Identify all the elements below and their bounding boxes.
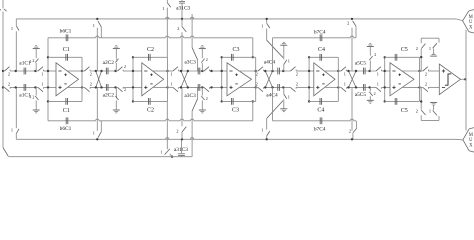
node summing2 x C-wire top <box>132 56 134 58</box>
wire hop b6 top over V97 <box>96 36 99 38</box>
svg-text:1: 1 <box>261 128 263 133</box>
node op-amp4 out top <box>337 70 339 72</box>
svg-text:2: 2 <box>32 58 34 63</box>
ground G5 bottom <box>369 87 371 91</box>
wire rail-to-stage2 vertical top <box>96 28 98 71</box>
svg-text:C4: C4 <box>318 47 325 53</box>
svg-text:U: U <box>469 20 473 25</box>
ground G1 bottom <box>35 87 37 95</box>
ground G3 bottom <box>201 87 203 95</box>
node rail dot 267 top <box>266 18 268 20</box>
svg-text:2: 2 <box>256 82 258 87</box>
node summing3 row bottom <box>221 86 223 88</box>
ground G4 top <box>283 65 285 72</box>
wire V167 top stub <box>166 0 168 3</box>
node rail dot 182 top <box>181 18 183 20</box>
capacitor C5 top <box>385 56 420 58</box>
svg-text:1: 1 <box>93 131 95 136</box>
op-amp U2 <box>142 63 164 96</box>
svg-text:b6C1: b6C1 <box>60 126 72 132</box>
capacitor a1C1 bottom <box>23 84 25 91</box>
svg-text:1: 1 <box>377 71 379 76</box>
node bottom bus at V167 <box>171 156 173 158</box>
op-amp U4 <box>314 63 335 96</box>
wire op-amp2 input stubs <box>133 70 142 72</box>
wire bottom reference rail <box>16 138 456 140</box>
svg-text:1: 1 <box>162 6 164 11</box>
wire a31C3 top vertical <box>181 3 183 19</box>
node op-amp3 out bottom <box>255 86 257 88</box>
switch S-V167 bottom phase1 <box>165 149 170 155</box>
node summing5 x C-wire top <box>384 56 386 58</box>
node A1 top <box>15 70 17 72</box>
switch S1a phase2 top <box>5 67 10 71</box>
wire hop b6 bottom over V97 <box>96 119 99 121</box>
capacitor C4 top <box>309 56 338 58</box>
wire op-amp3 output line <box>255 57 257 101</box>
capacitor C5 bottom <box>385 100 420 102</box>
node summing1 x C-wire top <box>47 56 49 58</box>
wire row stage2 bottom <box>82 86 85 88</box>
wire hop b6 bottom over V182 <box>180 119 183 121</box>
wire b6 bottom right corner <box>252 101 254 120</box>
node op-amp2 out top <box>166 70 168 72</box>
node op-amp5 out top <box>418 70 420 72</box>
svg-text:1: 1 <box>344 82 346 87</box>
wire b7 bottom <box>273 120 351 122</box>
wire comp row bottom <box>420 86 423 88</box>
switch S5a phase1 bottom <box>341 87 346 91</box>
wire comp gnd branch top <box>438 38 440 42</box>
node comp branch bottom at C5 <box>420 100 422 102</box>
capacitor a2C2 bottom <box>105 84 107 91</box>
wire hop b6 top over V192 <box>190 36 193 38</box>
svg-text:2: 2 <box>206 96 208 101</box>
node summing2 row top <box>132 70 134 72</box>
capacitor a5C5 bottom <box>363 84 365 91</box>
svg-text:1: 1 <box>171 71 173 76</box>
mux M2 (bottom, cut at border) <box>463 129 469 140</box>
wire op-amp2 output stubs <box>153 70 167 72</box>
svg-text:C1: C1 <box>63 47 70 53</box>
node rail dot 352 bottom <box>351 138 353 140</box>
mux M1 (top, cut at border) <box>463 11 469 21</box>
ground G3 top <box>201 63 203 71</box>
ground G4 bottom <box>283 87 285 94</box>
node summing1 row top <box>47 70 49 72</box>
wire op-amp4 output stubs <box>325 70 338 72</box>
node summing4 x C-wire bottom <box>308 100 310 102</box>
node summing3 row top <box>221 70 223 72</box>
wire comparator sample bus top <box>421 37 439 39</box>
ground G5 top <box>369 61 371 72</box>
svg-text:1: 1 <box>171 82 173 87</box>
svg-text:C3: C3 <box>232 108 239 114</box>
capacitor b6C1 bottom <box>65 117 67 124</box>
node A1 bottom <box>15 86 17 88</box>
node summing2 x C-wire bottom <box>132 100 134 102</box>
node B2 top <box>114 70 116 72</box>
switch S-rail-1 bottom (phase 1) <box>16 129 19 134</box>
wire op-amp2 output line <box>167 57 169 101</box>
node rail dot 97 top <box>96 18 98 20</box>
wire row stage3 top <box>168 70 174 72</box>
wire hop b6 top over V182 <box>180 36 183 38</box>
wire V167 top run <box>166 8 168 58</box>
node B3 bottom <box>201 86 203 88</box>
wire row stage4 top <box>256 70 258 72</box>
svg-text:a5C5: a5C5 <box>355 92 367 98</box>
capacitor a3C3 bottom <box>197 84 199 91</box>
node summing5 x C-wire bottom <box>384 100 386 102</box>
svg-text:2: 2 <box>176 128 178 133</box>
capacitor a4C4 top <box>277 68 279 75</box>
wire op-amp5 input stubs <box>385 70 390 72</box>
switch S1a phase2 bottom <box>5 87 10 91</box>
svg-text:a31C3: a31C3 <box>176 5 190 11</box>
switch S3b phase2 top <box>204 67 209 71</box>
node rail dot 97 bottom <box>96 138 98 140</box>
node B4 top <box>282 70 284 72</box>
wire b6 branch to rail top <box>100 27 102 38</box>
svg-text:U: U <box>469 138 473 143</box>
wire V192 bottom <box>191 111 193 157</box>
svg-text:C3: C3 <box>232 47 239 53</box>
svg-text:M: M <box>469 133 474 138</box>
node rail dot 182 bottom <box>181 138 183 140</box>
switch Scmp phase2 top <box>423 67 428 71</box>
wire comp branch left bottom <box>420 115 422 120</box>
capacitor a2C2 top <box>105 68 107 75</box>
wire comparator output <box>461 78 467 80</box>
capacitor C2 bottom <box>133 100 168 102</box>
node B4 bottom <box>282 86 284 88</box>
svg-text:1: 1 <box>41 71 43 76</box>
svg-text:2: 2 <box>124 64 126 69</box>
wire op-amp4 output line <box>337 57 339 101</box>
wire row stage3 bottom <box>168 86 174 88</box>
svg-text:1: 1 <box>288 95 290 100</box>
wire comp branch left top <box>420 38 422 43</box>
node summing3 x C-wire bottom <box>221 100 223 102</box>
node b6 bottom at C3 wire <box>252 100 254 102</box>
node comp branch top at C5 <box>420 56 422 58</box>
wire hop bottom rail over V192 <box>190 138 193 140</box>
svg-text:a3C3: a3C3 <box>184 93 196 99</box>
svg-text:X: X <box>469 144 473 149</box>
node xcross4 + diagonals <box>265 71 272 87</box>
svg-text:2: 2 <box>296 82 298 87</box>
svg-text:1: 1 <box>429 46 431 51</box>
svg-text:C1: C1 <box>63 108 70 114</box>
svg-text:2: 2 <box>32 95 34 100</box>
node op-amp1 out top <box>81 70 83 72</box>
wire hop bottom rail over V167 <box>166 138 169 140</box>
switch Scmp phase2 bottom <box>423 87 428 91</box>
node xcross3 + diagonals <box>181 71 188 87</box>
wire rail-to-stage3 bottom <box>181 132 183 139</box>
wire b7 branch to rail bottom <box>355 121 357 129</box>
node input row start top <box>2 70 4 72</box>
switch S-in-bottom (cut at border) <box>3 148 8 157</box>
wire V167 bottom run <box>166 101 168 149</box>
node op-amp3 out top <box>255 70 257 72</box>
wire input line left vertical <box>2 0 4 8</box>
svg-text:2: 2 <box>177 26 179 31</box>
wire a31C3 bottom vertical <box>181 139 183 153</box>
wire op-amp5 output line <box>419 57 421 101</box>
wire top reference rail <box>16 18 456 20</box>
switch S4b phase2 bottom <box>291 87 296 91</box>
switch S-in-top (cut at border) <box>4 9 7 11</box>
capacitor b7C4 bottom <box>319 117 321 124</box>
svg-text:2: 2 <box>124 87 126 92</box>
capacitor a5C5 top <box>363 68 365 75</box>
comparator U6 <box>439 64 460 95</box>
svg-text:1: 1 <box>261 24 263 29</box>
switch S2b phase2 top <box>118 67 123 71</box>
node comparator output <box>464 78 466 80</box>
svg-text:C2: C2 <box>147 108 154 114</box>
node summing1 row bottom <box>47 86 49 88</box>
switch S1b phase1 top <box>38 67 43 71</box>
capacitor C3 bottom <box>222 100 256 102</box>
wire rail-to-stage5 vertical top <box>351 28 353 71</box>
svg-text:1: 1 <box>93 23 95 28</box>
svg-text:a31C3: a31C3 <box>174 147 188 153</box>
ground G2 bottom <box>115 87 117 95</box>
node xcross5 + diagonals <box>349 71 357 87</box>
svg-text:2: 2 <box>256 71 258 76</box>
wire op-amp1 summing line <box>47 38 49 121</box>
wire rail-to-stage2 vertical bottom <box>96 87 98 130</box>
svg-text:C5: C5 <box>401 47 408 53</box>
switch S2a phase2 bottom <box>85 87 90 91</box>
wire comparator sample bus bottom <box>421 119 439 121</box>
svg-text:1: 1 <box>11 128 13 133</box>
node summing1 x C-wire bottom <box>47 100 49 102</box>
wire input row bottom stage1 <box>3 86 5 88</box>
svg-text:1: 1 <box>429 109 431 114</box>
svg-text:a4C4: a4C4 <box>264 60 276 66</box>
switch S5a phase1 top <box>341 67 346 71</box>
ground G1 top <box>35 63 37 71</box>
capacitor C2 top <box>133 56 168 58</box>
node summing5 row top <box>384 70 386 72</box>
switch S4-inject bottom (long blade) <box>266 118 268 129</box>
switch S5b phase2 top <box>376 67 381 71</box>
wire op-amp1 output line <box>81 57 83 101</box>
wire row stage5 top <box>338 70 341 72</box>
capacitor C3 top <box>222 56 256 58</box>
capacitor a4C4 bottom <box>277 84 279 91</box>
wire op-amp1 input stubs <box>48 70 56 72</box>
capacitor a3C3 top <box>197 68 199 75</box>
wire b6 bus top <box>48 37 96 39</box>
node summing4 row bottom <box>308 86 310 88</box>
switch S3a phase1 top <box>173 67 178 71</box>
op-amp U1 <box>56 63 79 96</box>
svg-text:2: 2 <box>374 52 376 57</box>
wire op-amp3 summing line <box>221 57 223 101</box>
wire hop b7 top over V352 <box>350 36 353 38</box>
capacitor C4 bottom <box>309 100 338 102</box>
svg-text:2: 2 <box>29 59 31 64</box>
node after S3b top <box>210 70 212 72</box>
wire rail-to-stage4 vertical bottom <box>266 136 268 139</box>
wire hop top rail over V192 <box>190 17 193 19</box>
node summing5 row bottom <box>384 86 386 88</box>
svg-text:2: 2 <box>90 82 92 87</box>
svg-text:X: X <box>469 26 473 31</box>
svg-text:a2C2: a2C2 <box>103 60 115 66</box>
node b6 top at C3 wire <box>252 56 254 58</box>
svg-text:b7C4: b7C4 <box>314 29 326 35</box>
switch S3b phase2 bottom <box>204 87 209 91</box>
svg-text:1: 1 <box>11 26 13 31</box>
node after S3b bottom <box>210 86 212 88</box>
wire op-amp3 output stubs <box>238 70 255 72</box>
node op-amp1 out bottom <box>81 86 83 88</box>
wire comp gnd branch bottom <box>438 116 440 120</box>
switch S4-inject top (long blade) <box>266 29 268 41</box>
svg-text:1: 1 <box>41 82 43 87</box>
ground G2 top <box>115 63 117 71</box>
wire b7 branch to rail top <box>355 26 357 38</box>
wire input row top stage1 <box>3 70 5 72</box>
wire hop b6 bottom over V167 <box>166 119 169 121</box>
wire op-amp5 output stubs <box>401 70 419 72</box>
switch S4a phase2 bottom <box>258 87 263 91</box>
wire op-amp4 input stubs <box>309 70 314 72</box>
wire op-amp5 summing line <box>384 57 386 101</box>
svg-text:1: 1 <box>377 82 379 87</box>
switch S1b phase1 bottom <box>38 87 43 91</box>
node summing2 row bottom <box>132 86 134 88</box>
capacitor C1 top <box>48 56 82 58</box>
switch S4b phase2 top <box>291 67 296 71</box>
svg-text:2: 2 <box>425 82 427 87</box>
wire V192 top <box>191 14 193 48</box>
switch S2b phase2 bottom <box>118 87 123 91</box>
svg-text:a2C2: a2C2 <box>103 93 115 99</box>
switch S4a phase2 top <box>258 67 263 71</box>
svg-text:2: 2 <box>90 71 92 76</box>
wire rail-to-stage3 top <box>181 19 183 27</box>
ground G-comp bottom <box>430 101 437 103</box>
wire row stage4 bottom <box>256 86 258 88</box>
node B1 bottom <box>34 86 36 88</box>
node B3 top <box>201 70 203 72</box>
wire b7 top <box>273 37 351 39</box>
svg-text:C4: C4 <box>317 107 324 113</box>
wire rail-to-stage5 vertical bottom <box>351 87 353 130</box>
svg-text:2: 2 <box>374 91 376 96</box>
node rail dot 267 bottom <box>266 138 268 140</box>
capacitor a1C1 top <box>23 68 25 75</box>
svg-text:1: 1 <box>288 59 290 64</box>
svg-text:2: 2 <box>8 71 10 76</box>
wire V167 bottom tail <box>170 154 172 157</box>
switch S3a phase1 bottom <box>173 87 178 91</box>
capacitor a31C3 top (cropped) <box>181 0 183 1</box>
svg-text:e: e <box>0 7 1 12</box>
node B5 top <box>368 70 370 72</box>
svg-text:2: 2 <box>347 20 349 25</box>
capacitor a31C3 bottom <box>178 153 185 155</box>
wire hop top rail over V167 <box>166 17 169 19</box>
svg-text:C2: C2 <box>147 47 154 53</box>
svg-text:M: M <box>469 15 474 20</box>
node rail dot 352 top <box>351 18 353 20</box>
op-amp U3 <box>227 63 252 96</box>
capacitor C1 bottom <box>48 100 82 102</box>
wire comp row top <box>420 70 423 72</box>
node summing4 row top <box>308 70 310 72</box>
switch S2a phase2 top <box>85 67 90 71</box>
svg-text:2: 2 <box>416 46 418 51</box>
wire comparator to MUX bottom <box>465 79 467 130</box>
svg-text:1: 1 <box>160 149 162 154</box>
wire op-amp1 output stubs <box>67 70 82 72</box>
switch S-rail-1 top (phase 1) <box>16 26 19 31</box>
node summing3 x C-wire top <box>221 56 223 58</box>
ground G-comp top <box>430 55 437 57</box>
svg-text:2: 2 <box>425 71 427 76</box>
node B2 bottom <box>114 86 116 88</box>
wire hop b6 top over V167 <box>166 36 169 38</box>
wire hop b6 bottom over V192 <box>190 119 193 121</box>
wire op-amp4 summing line <box>308 57 310 101</box>
wire row stage2 top <box>82 70 85 72</box>
node B1 top <box>34 70 36 72</box>
node input row start bottom <box>2 86 4 88</box>
wire op-amp2 summing line <box>132 57 134 101</box>
svg-text:a3C3: a3C3 <box>184 59 196 65</box>
node op-amp4 out bottom <box>337 86 339 88</box>
svg-text:b6C1: b6C1 <box>60 29 72 35</box>
svg-text:2: 2 <box>29 94 31 99</box>
wire b6 top right corner <box>252 38 254 58</box>
op-amp U5 <box>390 63 414 96</box>
node op-amp5 out bottom <box>418 86 420 88</box>
svg-text:2: 2 <box>206 57 208 62</box>
wire bottom bus <box>8 156 191 158</box>
node op-amp2 out bottom <box>166 86 168 88</box>
wire row stage5 bottom <box>338 86 341 88</box>
wire comparator to MUX top <box>465 30 467 80</box>
svg-text:2: 2 <box>416 108 418 113</box>
svg-text:1: 1 <box>344 71 346 76</box>
capacitor b7C4 top <box>319 34 321 41</box>
node summing4 x C-wire top <box>308 56 310 58</box>
wire op-amp3 input stubs <box>222 70 227 72</box>
node xcross2 + diagonals <box>96 71 102 87</box>
capacitor b6C1 top <box>65 34 67 41</box>
svg-text:2: 2 <box>296 71 298 76</box>
wire b6 bus bottom <box>48 120 96 122</box>
svg-text:a5C5: a5C5 <box>355 60 367 66</box>
wire rail-to-stage4 vertical top <box>266 19 268 23</box>
switch S5b phase2 bottom <box>376 87 381 91</box>
svg-text:2: 2 <box>8 82 10 87</box>
svg-text:b7C4: b7C4 <box>314 127 326 133</box>
svg-text:C5: C5 <box>401 108 408 114</box>
wire hop b7 bottom over V352 <box>350 119 353 121</box>
node B5 bottom <box>368 86 370 88</box>
wire b6 branch to rail bottom <box>100 121 102 132</box>
svg-text:2: 2 <box>349 129 351 134</box>
